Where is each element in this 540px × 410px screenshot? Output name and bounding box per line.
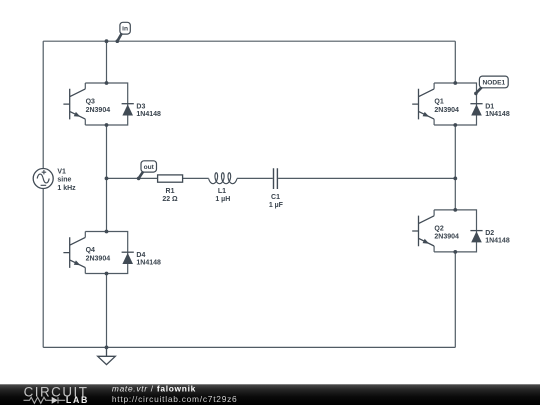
wire left rail upper (to V1 +) bbox=[42, 41, 44, 168]
svg-text:2N3904: 2N3904 bbox=[86, 107, 111, 114]
wire left rail lower (from V1 -) bbox=[42, 188, 44, 347]
junction node (106.5,125) bbox=[105, 123, 109, 127]
wire mid column upper (in to Q3) bbox=[106, 41, 108, 83]
wire right rail upper bbox=[454, 41, 456, 83]
wire row: L1 to C1 bbox=[237, 177, 273, 179]
svg-text:Q3: Q3 bbox=[86, 98, 95, 105]
wire Q2 cell frame bbox=[434, 210, 476, 252]
wire mid column lower (Q4 to ground) bbox=[106, 274, 108, 348]
wire bottom rail bbox=[43, 346, 455, 348]
svg-text:1N4148: 1N4148 bbox=[136, 111, 161, 118]
svg-text:1N4148: 1N4148 bbox=[485, 238, 510, 245]
diode D2 (1N4148) bbox=[470, 230, 482, 232]
junction node (106.5,83) bbox=[105, 81, 109, 85]
svg-text:out: out bbox=[144, 164, 155, 171]
diode D4 (1N4148) bbox=[122, 251, 134, 253]
wire Q4 cell frame bbox=[85, 232, 127, 274]
wire right rail middle (Q1 to Q2) bbox=[454, 125, 456, 210]
svg-text:1N4148: 1N4148 bbox=[485, 111, 510, 118]
junction node (455.3,125) bbox=[453, 123, 457, 127]
svg-text:1 kHz: 1 kHz bbox=[57, 185, 76, 192]
node flag in bbox=[117, 34, 121, 42]
svg-text:1 µH: 1 µH bbox=[215, 196, 230, 203]
junction node (455.3,178.4) bbox=[453, 177, 457, 181]
wire Q3 cell frame bbox=[85, 83, 127, 125]
wire row: C1 to right rail bbox=[278, 177, 455, 179]
svg-text:D4: D4 bbox=[136, 252, 145, 259]
svg-text:mate.vtr / falownik: mate.vtr / falownik bbox=[112, 384, 196, 394]
svg-text:2N3904: 2N3904 bbox=[434, 234, 459, 241]
svg-text:NODE1: NODE1 bbox=[482, 79, 505, 86]
svg-text:Q1: Q1 bbox=[434, 98, 443, 105]
resistor R1 22 Ohm bbox=[158, 175, 183, 182]
svg-text:http://circuitlab.com/c7t29z6: http://circuitlab.com/c7t29z6 bbox=[112, 394, 238, 404]
svg-text:LAB: LAB bbox=[66, 395, 89, 405]
junction node (106.5,178.4) bbox=[105, 177, 109, 181]
transistor Q2 (NPN 2N3904) bbox=[412, 216, 434, 247]
svg-text:V1: V1 bbox=[57, 168, 66, 175]
svg-text:in: in bbox=[122, 26, 128, 33]
junction node (455.3,251.9) bbox=[453, 250, 457, 254]
junction node (106.5,347.4) bbox=[105, 346, 109, 350]
diode D3 (1N4148) bbox=[122, 103, 134, 105]
transistor Q3 (NPN 2N3904) bbox=[63, 89, 85, 120]
wire Q1 cell frame bbox=[434, 83, 476, 125]
svg-text:sine: sine bbox=[57, 177, 71, 184]
svg-text:L1: L1 bbox=[218, 188, 226, 195]
junction node (106.5,231.5) bbox=[105, 230, 109, 234]
svg-text:1 µF: 1 µF bbox=[269, 202, 284, 209]
junction node (455.3,83) bbox=[453, 81, 457, 85]
svg-text:D3: D3 bbox=[136, 103, 145, 110]
inductor L1 1 uH bbox=[209, 173, 237, 184]
svg-text:Q4: Q4 bbox=[86, 247, 95, 254]
svg-text:C1: C1 bbox=[271, 194, 280, 201]
wire right rail lower bbox=[454, 252, 456, 348]
svg-text:2N3904: 2N3904 bbox=[86, 255, 111, 262]
transistor Q4 (NPN 2N3904) bbox=[63, 237, 85, 268]
junction node (106.5,273.5) bbox=[105, 272, 109, 276]
wire row: node out to R1 bbox=[107, 177, 158, 179]
svg-text:D2: D2 bbox=[485, 230, 494, 237]
node flag out bbox=[139, 172, 144, 179]
diode D1 (1N4148) bbox=[470, 103, 482, 105]
svg-text:22 Ω: 22 Ω bbox=[162, 196, 178, 203]
transistor Q1 (NPN 2N3904) bbox=[412, 89, 434, 120]
junction node (455.3,209.9) bbox=[453, 208, 457, 212]
wire mid column middle (Q3 to Q4) bbox=[106, 125, 108, 232]
svg-text:1N4148: 1N4148 bbox=[136, 259, 161, 266]
capacitor C1 1 uF bbox=[274, 168, 278, 189]
svg-text:2N3904: 2N3904 bbox=[434, 107, 459, 114]
junction node (106.5,41.2) bbox=[105, 39, 109, 43]
node flag NODE1 bbox=[476, 87, 482, 93]
voltage source V1 sine 1 kHz bbox=[33, 169, 53, 189]
wire row: R1 to L1 bbox=[183, 177, 209, 179]
wire top rail bbox=[43, 40, 455, 42]
svg-text:R1: R1 bbox=[166, 188, 175, 195]
ground bbox=[98, 347, 116, 364]
svg-text:D1: D1 bbox=[485, 103, 494, 110]
svg-text:Q2: Q2 bbox=[434, 225, 443, 232]
